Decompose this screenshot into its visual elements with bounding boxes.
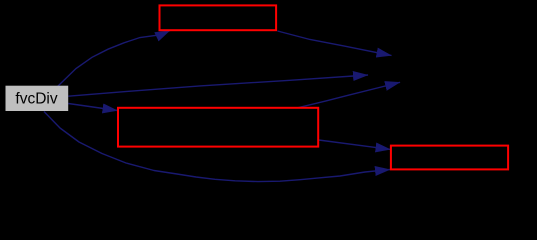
edge middle red box to bottom red box bbox=[319, 140, 391, 149]
node top red box bbox=[160, 5, 277, 30]
edge top red box to hidden node A bbox=[278, 31, 392, 56]
edge fvcDiv to hidden node B bbox=[68, 75, 368, 96]
edge fvcDiv to middle red box bbox=[68, 104, 117, 111]
edge fvcDiv to top red box bbox=[57, 31, 170, 88]
node fvcDiv (current node) bbox=[6, 86, 69, 111]
edge fvcDiv bottom sweep to bottom red box bbox=[44, 112, 390, 182]
node bottom red box bbox=[391, 146, 508, 170]
node middle red box bbox=[118, 108, 318, 147]
edge middle red box to hidden node C bbox=[298, 82, 401, 108]
svg-text:fvcDiv: fvcDiv bbox=[15, 91, 57, 108]
